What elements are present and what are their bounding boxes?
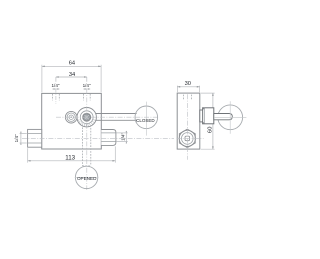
svg-text:OPENED: OPENED bbox=[77, 176, 97, 181]
fittings horizontal centerline (front view, extends toward side view) bbox=[22, 137, 174, 139]
hex port square socket bbox=[185, 136, 190, 141]
side view vertical centerline bbox=[187, 94, 189, 160]
left fitting hex edges bbox=[28, 134, 42, 144]
right fitting hex edges bbox=[101, 133, 115, 142]
dim 1/4" right: line and outside arrows bbox=[125, 131, 127, 144]
bottom hex port (end view) bbox=[179, 129, 195, 147]
dim 1/4" left: line and outside arrows bbox=[20, 132, 22, 145]
handle lever bar (closed position) bbox=[95, 114, 136, 121]
stem housing chamfers bbox=[203, 108, 205, 124]
dim 113 extension lines bbox=[28, 146, 116, 162]
stem hex nut bbox=[83, 114, 91, 121]
bleed screw outer circle bbox=[65, 111, 77, 123]
dim 113 line bbox=[28, 160, 116, 162]
dim 30 extension lines bbox=[177, 86, 199, 93]
bleed screw center dot bbox=[70, 116, 72, 118]
dim 34 line bbox=[56, 76, 87, 78]
lever rod (side view) bbox=[214, 114, 233, 120]
stem packing nut circle bbox=[80, 111, 93, 124]
port centerline left bbox=[55, 89, 57, 104]
CLOSED knob vertical crosshair bbox=[145, 102, 147, 136]
dim 1/4" right: extension lines bbox=[116, 133, 127, 142]
side port hidden lines bbox=[184, 95, 192, 101]
dim 64 arrows bbox=[42, 66, 101, 68]
dim 30 line bbox=[177, 86, 199, 88]
stem inner circle bbox=[83, 113, 91, 121]
svg-text:30: 30 bbox=[185, 81, 191, 87]
svg-text:1/4": 1/4" bbox=[120, 133, 125, 141]
dim 113 arrows bbox=[28, 160, 116, 162]
port hidden thread lines left bbox=[53, 94, 60, 101]
hex port thread circle bbox=[182, 133, 194, 145]
opened lever hidden end cap bbox=[82, 165, 90, 167]
dim 30 arrows bbox=[177, 86, 199, 88]
side body rectangle bbox=[177, 93, 200, 149]
knob vertical crosshair bbox=[229, 101, 231, 134]
stem outer circle bbox=[77, 108, 96, 127]
handle knob circle (side view, end-on) bbox=[218, 105, 243, 130]
CLOSED knob circle bbox=[135, 106, 158, 129]
dim 34 extension drops bbox=[56, 77, 87, 82]
port dim left (small outside arrows) bbox=[52, 88, 59, 90]
OPENED knob circle bbox=[75, 166, 97, 188]
valve body (front view) bbox=[42, 93, 102, 149]
hex port outer circle bbox=[179, 130, 195, 146]
bleed screw middle circle bbox=[67, 113, 75, 121]
opened lever hidden outline bbox=[82, 127, 90, 165]
opened lever / right port centerline (vertical) bbox=[86, 89, 88, 190]
right fitting (rounded plug side view) bbox=[101, 130, 116, 146]
svg-text:34: 34 bbox=[69, 72, 75, 78]
dim 1/4" left: extension lines bbox=[20, 134, 27, 144]
svg-text:CLOSED: CLOSED bbox=[136, 118, 155, 123]
svg-text:60: 60 bbox=[207, 127, 213, 133]
dim 34 arrows bbox=[56, 76, 87, 78]
svg-text:113: 113 bbox=[65, 154, 75, 161]
stem knurl ticks bbox=[77, 119, 95, 127]
port hidden thread lines right bbox=[83, 94, 90, 101]
dim 64 line bbox=[42, 65, 101, 67]
knob horizontal crosshair bbox=[214, 116, 246, 118]
OPENED knob horizontal crosshair bbox=[75, 176, 99, 178]
dim 60 extension lines bbox=[201, 93, 215, 149]
bleed screw inner circle bbox=[69, 115, 73, 119]
stem neck flange bbox=[200, 110, 203, 122]
dim 60 arrows bbox=[212, 93, 214, 149]
left fitting (hex nipple side view) bbox=[28, 129, 42, 147]
svg-text:64: 64 bbox=[69, 60, 75, 66]
horizontal centerline through stem, screw, lever, closed knob bbox=[56, 116, 159, 118]
dim 64 extension lines bbox=[42, 65, 101, 93]
port dim right (small outside arrows) bbox=[83, 88, 90, 90]
side view horizontal centerline bbox=[176, 137, 203, 139]
dim 60 line bbox=[212, 93, 214, 149]
svg-text:1/4": 1/4" bbox=[14, 134, 19, 142]
svg-text:1/4": 1/4" bbox=[83, 83, 91, 88]
svg-text:1/4": 1/4" bbox=[51, 83, 59, 88]
stem housing block bbox=[203, 108, 214, 124]
stem hex highlight X bbox=[85, 115, 89, 119]
stem housing inner edge bbox=[204, 108, 206, 124]
